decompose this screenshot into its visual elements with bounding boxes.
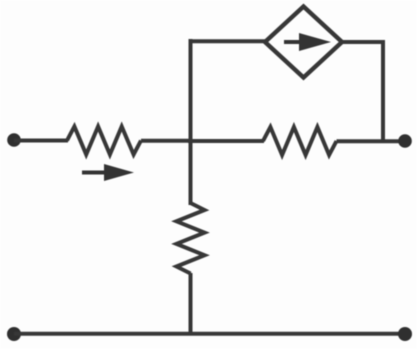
- bottom wire from node C to node D: [14, 332, 405, 336]
- node C terminal dot (bottom-left): [7, 327, 21, 341]
- wire vertical down right side to node B: [381, 40, 385, 143]
- wire from center node to resistor R2: [188, 139, 264, 143]
- wire from R3 down to bottom wire: [189, 273, 193, 335]
- wire from dependent source right tip to top-right corner: [341, 40, 385, 44]
- wire from R2 to node B: [337, 139, 406, 143]
- wire from node A to resistor R1: [14, 139, 68, 143]
- node A terminal dot (top-left): [7, 133, 21, 147]
- node B terminal dot (top-right): [398, 134, 412, 148]
- wire vertical from top corner down through center node: [189, 39, 193, 205]
- resistor R3 (vertical middle): [177, 203, 205, 274]
- resistor R1 (left horizontal): [67, 127, 141, 155]
- wire from R1 to center node: [141, 139, 192, 143]
- arrow inside dependent source: [284, 33, 331, 51]
- node D terminal dot (bottom-right): [398, 327, 412, 341]
- resistor R2 (right horizontal): [263, 127, 337, 155]
- current direction arrow under R1: [82, 164, 134, 181]
- wire top horizontal from corner to dependent source: [189, 39, 267, 43]
- dependent current source U1 (diamond): [265, 7, 342, 78]
